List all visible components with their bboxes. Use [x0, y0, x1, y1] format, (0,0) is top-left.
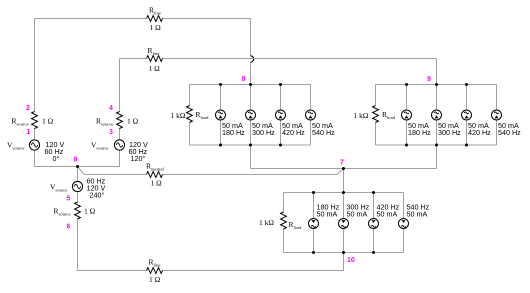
wire phase A top line (node 2 to node 8) — [35, 19, 251, 112]
svg-text:1 Ω: 1 Ω — [151, 179, 163, 188]
value 60 Hz (A) — [45, 147, 64, 156]
value 50 mA (bank10 #2) — [347, 210, 368, 219]
resistor Rload bank 10 — [281, 212, 287, 229]
value 50 mA (bank9 #1) — [408, 121, 429, 130]
value 50 mA (bank8 #1) — [222, 121, 243, 130]
current source bank9 300 Hz 50mA — [432, 110, 442, 120]
value 540 Hz (bank10 #4) — [407, 203, 430, 212]
svg-text:1 kΩ: 1 kΩ — [171, 111, 186, 120]
label Rload bank 10 — [289, 220, 303, 230]
label Vsource B — [91, 141, 108, 151]
wire bank 9 source leads — [407, 85, 497, 146]
wire phase B line (node 4 to node 9) — [120, 59, 437, 112]
value 1 &#937; (Rneutral) — [151, 179, 163, 188]
svg-text:Vsource: Vsource — [91, 141, 108, 151]
value 1 &#937; (Rline top) — [150, 23, 162, 32]
value 180 Hz (bank9 #1) — [408, 128, 431, 137]
wire node 7 tie (bank 8 / bank 9 / bank 10 returns) — [251, 145, 437, 193]
svg-text:7: 7 — [340, 160, 344, 167]
current source bank10 420 Hz 50mA — [369, 219, 379, 229]
value 180 Hz (bank8 #1) — [222, 128, 245, 137]
current source bank9 540 Hz 50mA — [492, 110, 502, 120]
resistor Rsource phase C — [75, 202, 81, 219]
current source bank9 180 Hz 50mA — [402, 110, 412, 120]
svg-text:2: 2 — [26, 105, 30, 112]
junctions bank 10 rails — [312, 191, 375, 254]
svg-text:3: 3 — [109, 129, 113, 136]
value 50 mA (bank9 #4) — [498, 121, 519, 130]
label Rline middle — [148, 46, 160, 56]
svg-text:Rline: Rline — [149, 6, 161, 16]
value 540 Hz (bank8 #4) — [312, 128, 335, 137]
voltage source Vsource phase A (120V 60Hz 0deg) — [29, 140, 39, 150]
node 2 — [26, 105, 30, 112]
svg-text:4: 4 — [109, 105, 113, 112]
svg-text:Rneutral: Rneutral — [146, 162, 164, 172]
svg-text:Rsource: Rsource — [12, 117, 29, 127]
svg-text:420 Hz: 420 Hz — [468, 128, 491, 137]
svg-text:1 kΩ: 1 kΩ — [259, 218, 274, 227]
voltage source Vsource phase C (120V 60Hz 240deg) — [72, 181, 82, 191]
svg-text:1 Ω: 1 Ω — [149, 64, 161, 73]
value 50 mA (bank10 #4) — [407, 210, 428, 219]
svg-text:1 Ω: 1 Ω — [42, 117, 54, 126]
value 50 mA (bank10 #1) — [317, 210, 338, 219]
current source bank9 420 Hz 50mA — [462, 110, 472, 120]
svg-text:0: 0 — [74, 157, 78, 164]
svg-text:Rsource: Rsource — [96, 117, 113, 127]
value 1 &#937; (Rsource B) — [127, 117, 139, 126]
svg-text:8: 8 — [242, 76, 246, 83]
value 300 Hz (bank9 #2) — [438, 128, 461, 137]
svg-text:120°: 120° — [131, 154, 146, 163]
value 120 V (B) — [129, 140, 148, 149]
svg-text:Rload: Rload — [382, 110, 396, 120]
value 0 deg (A) — [53, 154, 60, 163]
svg-text:1 Ω: 1 Ω — [127, 117, 139, 126]
svg-text:540 Hz: 540 Hz — [312, 128, 335, 137]
label Vsource A — [7, 141, 24, 151]
label Rload bank 8 — [196, 110, 210, 120]
label Rneutral — [146, 162, 164, 172]
svg-text:Vsource: Vsource — [7, 141, 24, 151]
node 10 — [347, 257, 355, 264]
svg-text:240°: 240° — [90, 191, 105, 200]
current source bank10 300 Hz 50mA — [339, 219, 349, 229]
svg-text:0°: 0° — [53, 154, 60, 163]
svg-text:1 Ω: 1 Ω — [84, 207, 96, 216]
current source bank10 180 Hz 50mA — [309, 219, 319, 229]
value 180 Hz (bank10 #1) — [317, 203, 340, 212]
resistor Rline (top, phase A) — [147, 16, 163, 22]
svg-text:540 Hz: 540 Hz — [498, 128, 521, 137]
svg-text:50 mA: 50 mA — [377, 210, 398, 219]
value 300 Hz (bank10 #2) — [347, 203, 370, 212]
svg-text:Rload: Rload — [289, 220, 303, 230]
value 50 mA (bank8 #3) — [282, 121, 303, 130]
wire bank 10 rails — [284, 193, 404, 253]
value 420 Hz (bank8 #3) — [282, 128, 305, 137]
resistor Rneutral — [147, 172, 163, 178]
svg-text:Rline: Rline — [148, 46, 160, 56]
value 120 deg (B) — [131, 154, 146, 163]
value 1 &#937; (Rline middle) — [149, 64, 161, 73]
junctions bank 9 rails — [405, 83, 468, 147]
label Rline bottom — [149, 258, 161, 268]
wire source bottom rail (node 0) — [35, 150, 120, 181]
node 0 — [74, 157, 78, 164]
node 8 — [242, 76, 246, 83]
svg-text:50 mA: 50 mA — [407, 210, 428, 219]
node 1 — [27, 129, 31, 136]
wire source column stubs — [35, 128, 120, 202]
svg-text:Rsource: Rsource — [54, 207, 71, 217]
resistor Rsource phase B — [117, 112, 123, 129]
node 7 — [340, 160, 344, 167]
resistor Rline (bottom, phase C) — [147, 268, 163, 274]
value 120 V (C) — [87, 184, 106, 193]
wire bank 9 rails — [376, 85, 497, 146]
value 120 V (A) — [46, 140, 65, 149]
svg-text:5: 5 — [67, 196, 71, 203]
wire bank 8 source leads — [221, 85, 311, 146]
label Rline top — [149, 6, 161, 16]
label Rsource B — [96, 117, 113, 127]
svg-text:Vsource: Vsource — [50, 183, 67, 193]
value 540 Hz (bank9 #4) — [498, 128, 521, 137]
wire hop (no connection) over phase B line — [251, 56, 254, 62]
wire phase C bottom line (node 6 to node 10) — [78, 219, 344, 271]
junction node 0 — [76, 165, 79, 168]
current source bank8 180 Hz 50mA — [216, 110, 226, 120]
svg-text:1 Ω: 1 Ω — [150, 23, 162, 32]
svg-text:180 Hz: 180 Hz — [222, 128, 245, 137]
value 1 k&#937; (bank 10) — [259, 218, 274, 227]
value 50 mA (bank8 #2) — [252, 121, 273, 130]
value 240 deg (C) — [90, 191, 105, 200]
value 50 mA (bank8 #4) — [312, 121, 333, 130]
label Rsource A — [12, 117, 29, 127]
svg-text:10: 10 — [347, 257, 355, 264]
value 420 Hz (bank9 #3) — [468, 128, 491, 137]
svg-text:300 Hz: 300 Hz — [252, 128, 275, 137]
node 6 — [67, 224, 71, 231]
resistor Rsource phase A — [32, 112, 38, 129]
value 1 &#937; (Rsource C) — [84, 207, 96, 216]
svg-text:9: 9 — [427, 76, 431, 83]
svg-text:180 Hz: 180 Hz — [408, 128, 431, 137]
node 5 — [67, 196, 71, 203]
current source bank8 420 Hz 50mA — [276, 110, 286, 120]
label Rsource C — [54, 207, 71, 217]
value 1 k&#937; (bank 8) — [171, 111, 186, 120]
junctions bank 8 rails — [219, 83, 282, 147]
svg-text:Rline: Rline — [149, 258, 161, 268]
junction node 7 — [342, 167, 345, 170]
current source bank10 540 Hz 50mA — [399, 219, 409, 229]
resistor Rload bank 9 — [373, 106, 379, 123]
svg-text:50 mA: 50 mA — [347, 210, 368, 219]
label Vsource C — [50, 183, 67, 193]
wire bank 10 source leads — [314, 193, 404, 253]
node 4 — [109, 105, 113, 112]
svg-text:1 Ω: 1 Ω — [149, 275, 161, 284]
svg-text:Rload: Rload — [196, 110, 210, 120]
svg-text:6: 6 — [67, 224, 71, 231]
resistor Rline (middle, phase B) — [147, 56, 163, 62]
value 50 mA (bank9 #3) — [468, 121, 489, 130]
label Rload bank 9 — [382, 110, 396, 120]
node 9 — [427, 76, 431, 83]
value 1 &#937; (Rsource A) — [42, 117, 54, 126]
svg-text:50 mA: 50 mA — [317, 210, 338, 219]
value 420 Hz (bank10 #3) — [377, 203, 400, 212]
current source bank8 540 Hz 50mA — [306, 110, 316, 120]
value 1 k&#937; (bank 9) — [354, 111, 369, 120]
value 300 Hz (bank8 #2) — [252, 128, 275, 137]
wire neutral (node 0 to node 7) — [78, 167, 344, 175]
value 50 mA (bank9 #2) — [438, 121, 459, 130]
value 60 Hz (C) — [87, 177, 106, 186]
current source bank8 300 Hz 50mA — [246, 110, 256, 120]
voltage source Vsource phase B (120V 60Hz 120deg) — [114, 140, 124, 150]
svg-text:300 Hz: 300 Hz — [438, 128, 461, 137]
svg-text:1: 1 — [27, 129, 31, 136]
svg-text:1 kΩ: 1 kΩ — [354, 111, 369, 120]
wire bank 8 rails — [190, 85, 311, 146]
resistor Rload bank 8 — [187, 106, 193, 123]
value 50 mA (bank10 #3) — [377, 210, 398, 219]
value 1 &#937; (Rline bottom) — [149, 275, 161, 284]
value 60 Hz (B) — [129, 147, 148, 156]
node 3 — [109, 129, 113, 136]
svg-text:420 Hz: 420 Hz — [282, 128, 305, 137]
